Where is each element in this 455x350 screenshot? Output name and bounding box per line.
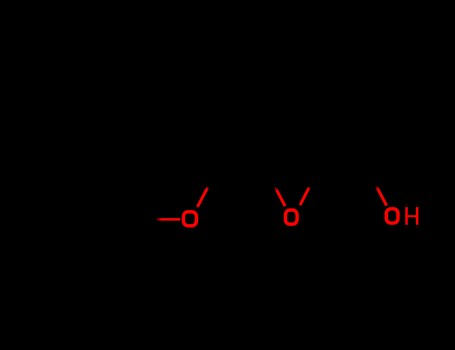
benzene/cyclohexane ring (black, invisible on black bg) xyxy=(57,184,137,254)
wire: epoxide C3 to ring O, red half (faded tip) xyxy=(308,186,310,189)
atom label O (ether) xyxy=(183,212,196,226)
wire: bond ether O to CH2, red half (faded tip) xyxy=(207,186,209,189)
wire: bond ether O to CH2, black half xyxy=(208,168,218,187)
atom label O (of OH) xyxy=(386,209,398,223)
wire: epoxide C2 to ring O, red half (faded tip) xyxy=(275,188,277,191)
wire: epoxide C2 to ring O, red half (solid) xyxy=(277,191,285,207)
wire: bond ring-C to ether O, red half (faded tail) xyxy=(156,218,162,221)
wire: epoxide C3 to ring O, black half xyxy=(309,170,318,188)
wire: epoxide C2-C3 bond (black) xyxy=(267,170,319,172)
atom label O (epoxide) xyxy=(285,210,297,224)
wire: bond CH2 to hydroxyl O, red half (faded tip) xyxy=(376,186,378,189)
atom label H (of OH) xyxy=(405,207,418,225)
wire: bond CH2 to hydroxyl O, black half xyxy=(368,170,378,188)
wire: bond ether O to CH2, red half (solid) xyxy=(197,189,206,207)
wire: bond ring-C to ether O, red half (solid) xyxy=(162,218,181,221)
wire: epoxide C3 to ring O, red half (solid) xyxy=(300,189,308,205)
wire: bond ring-C to ether O, black half xyxy=(137,218,158,221)
wire: bond CH2 to hydroxyl O, red half (solid) xyxy=(378,189,387,205)
wire: bond CH2 to epoxide C2 (black) xyxy=(218,168,267,172)
wire: bond epoxide C3 to CH2 (black) xyxy=(319,168,368,171)
wire: epoxide C2 to ring O, black half xyxy=(267,172,276,189)
